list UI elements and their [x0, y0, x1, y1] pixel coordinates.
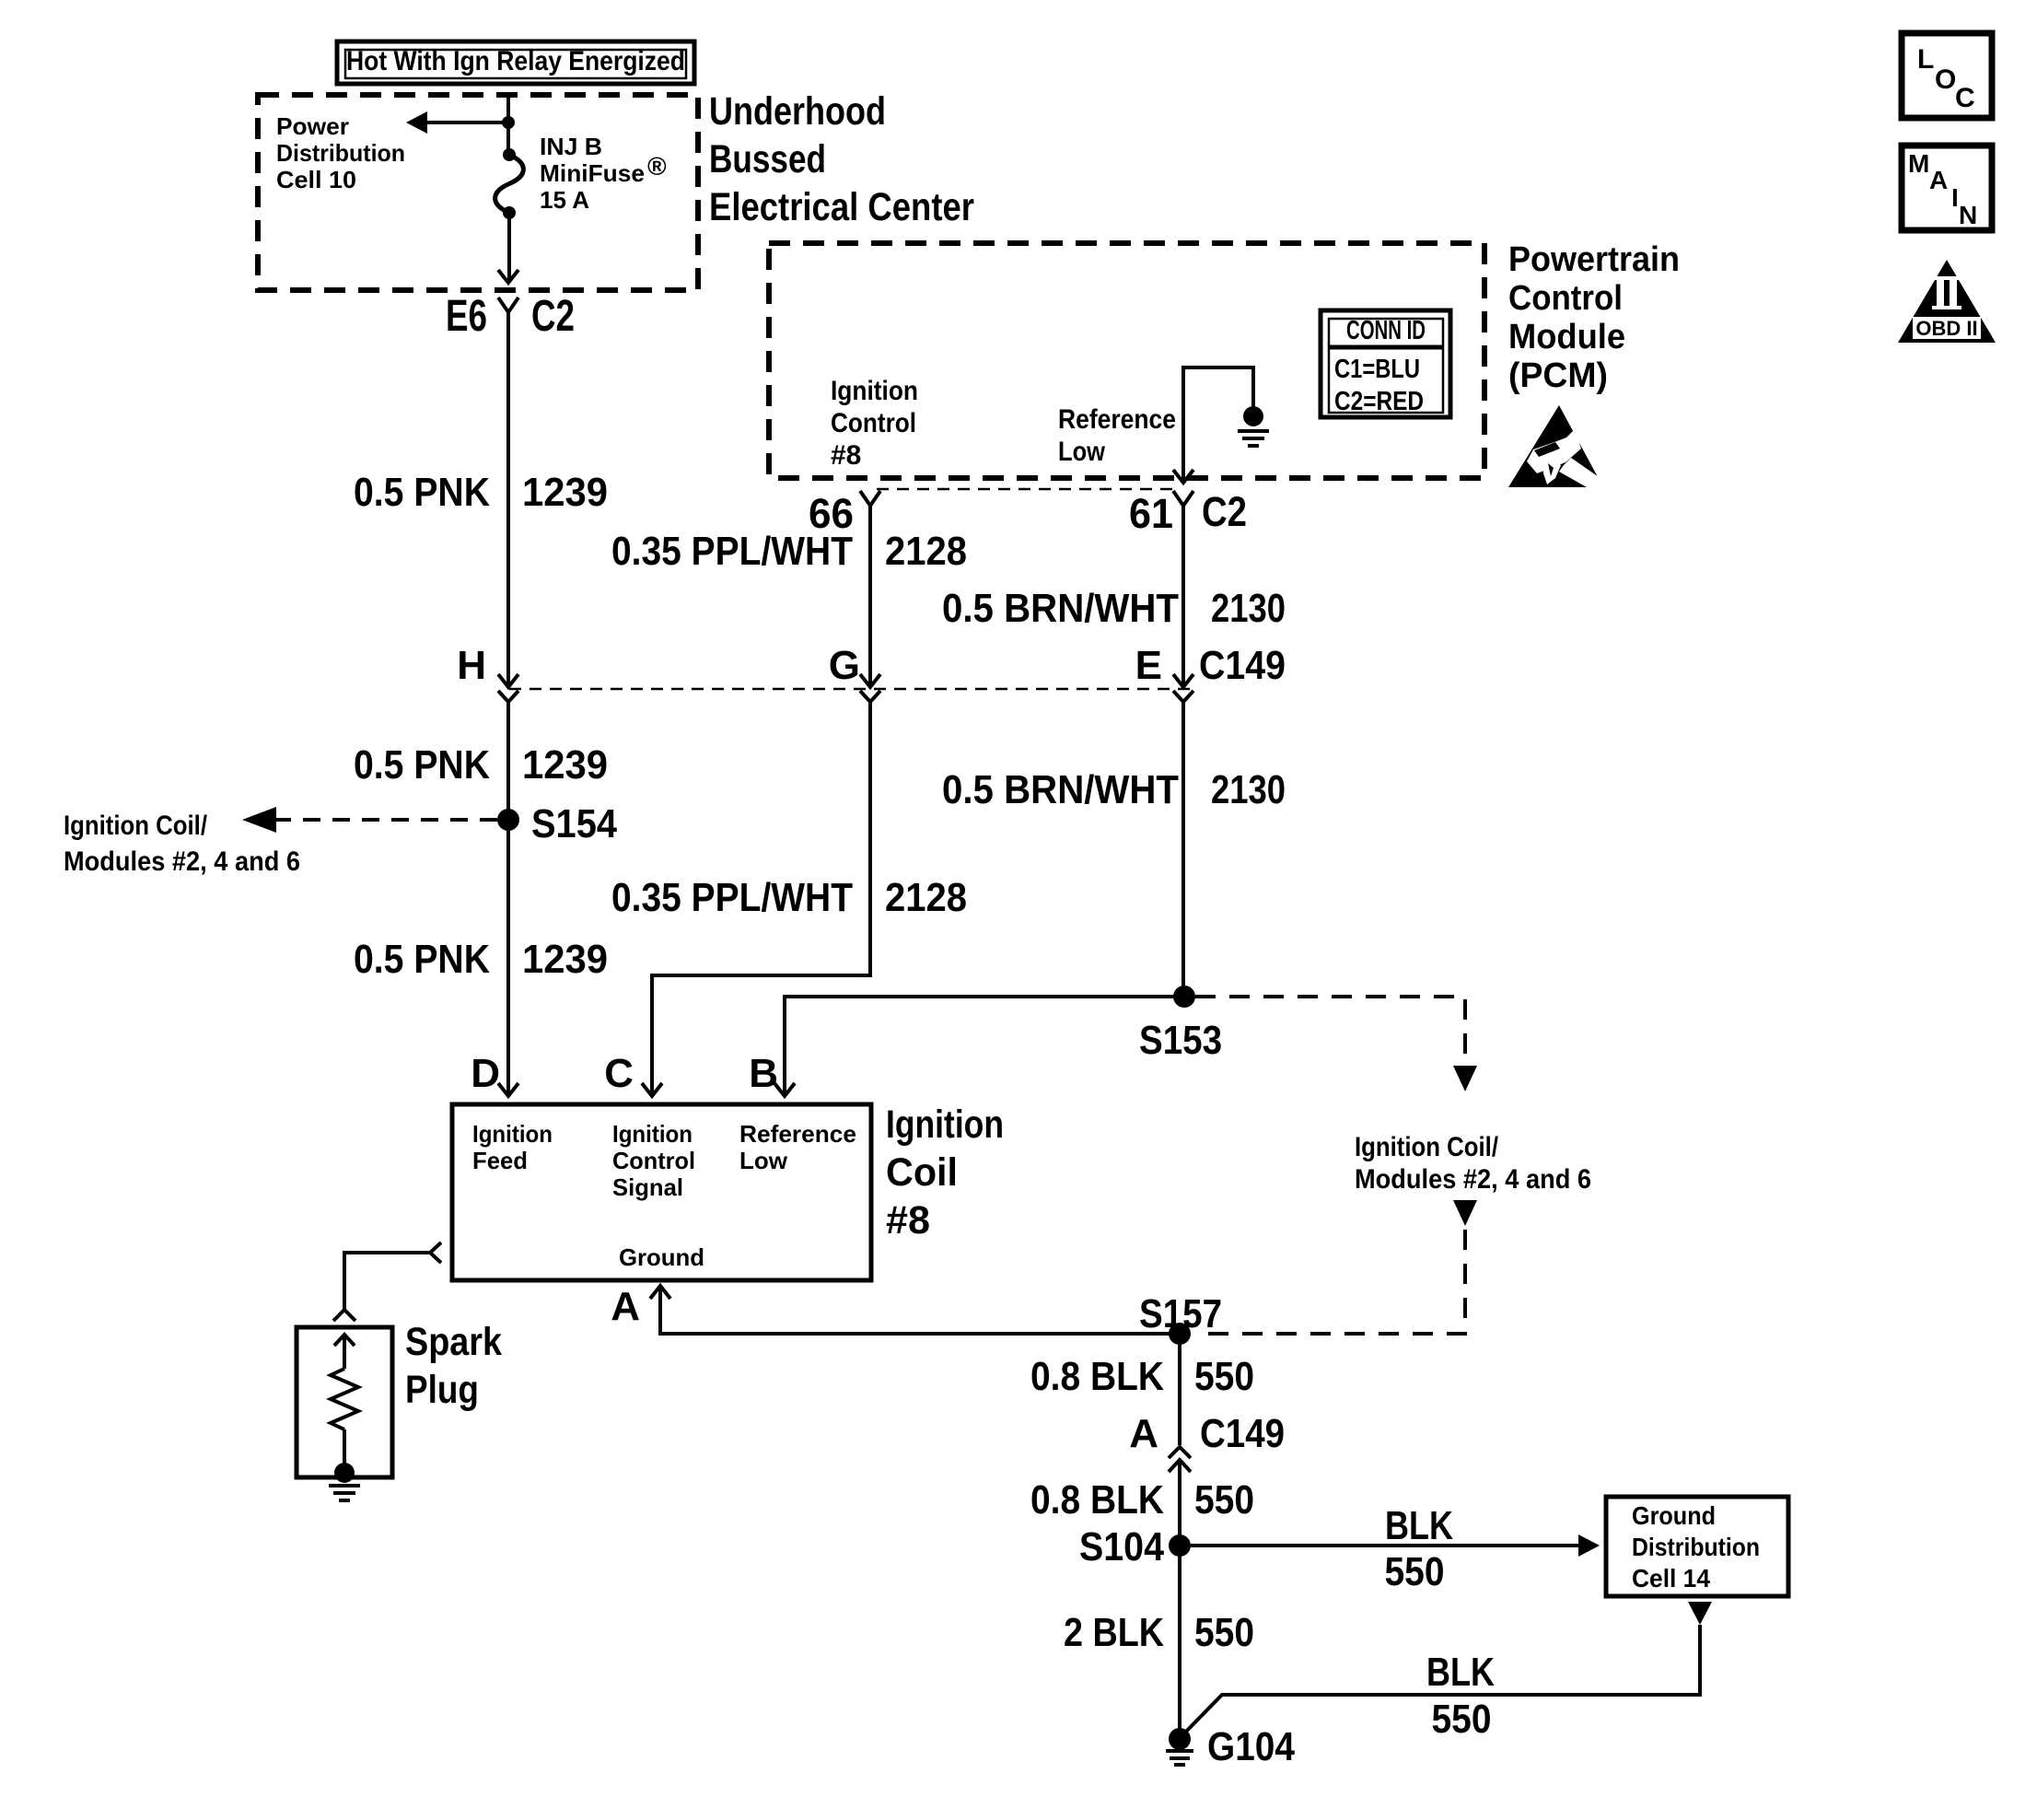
label 0.35 PPL/WHT 2128 (2): [611, 875, 967, 920]
wire W1 fuse to connector E6: [507, 213, 511, 283]
label 0.5 PNK 1239 (3): [354, 937, 608, 982]
svg-text:®: ®: [647, 152, 667, 181]
label 0.8 BLK 550 (1): [1030, 1354, 1254, 1399]
svg-text:S153: S153: [1139, 1018, 1222, 1063]
svg-text:550: 550: [1432, 1697, 1492, 1742]
svg-text:Ignition Coil/: Ignition Coil/: [1355, 1132, 1499, 1162]
A arrowhead up into coil: [650, 1286, 670, 1299]
svg-text:Electrical Center: Electrical Center: [709, 185, 974, 229]
svg-text:C2: C2: [1202, 488, 1247, 535]
svg-text:0.5 PNK: 0.5 PNK: [354, 937, 490, 982]
E arrowhead: [1173, 674, 1193, 687]
dashed wire S153 to modules: [1195, 997, 1477, 1091]
svg-text:#8: #8: [886, 1198, 930, 1242]
svg-text:Distribution: Distribution: [1632, 1533, 1760, 1561]
svg-text:Ground: Ground: [1632, 1501, 1716, 1530]
svg-text:0.5 BRN/WHT: 0.5 BRN/WHT: [942, 586, 1179, 631]
svg-text:N: N: [1959, 201, 1977, 229]
svg-text:S104: S104: [1079, 1524, 1164, 1569]
PCM label: [1508, 240, 1680, 395]
svg-text:C: C: [604, 1051, 634, 1096]
label Spark Plug: [405, 1320, 502, 1412]
svg-text:S154: S154: [531, 801, 617, 846]
svg-text:Distribution: Distribution: [276, 139, 405, 167]
svg-text:G: G: [829, 643, 860, 688]
svg-text:2 BLK: 2 BLK: [1064, 1610, 1164, 1655]
thin dashed connector line under PCM: [877, 488, 1179, 491]
CONN ID box: [1321, 310, 1450, 417]
svg-text:Spark: Spark: [405, 1320, 502, 1364]
svg-text:CONN ID: CONN ID: [1346, 316, 1426, 345]
svg-text:Modules #2, 4 and 6: Modules #2, 4 and 6: [64, 846, 300, 877]
MAIN icon: [1902, 146, 1992, 230]
fuse INJ B MiniFuse 15A: [495, 148, 524, 219]
svg-text:1239: 1239: [522, 742, 608, 787]
connector A C149 arrowhead up: [1169, 1460, 1191, 1472]
wire to S104 and G104: [1178, 1460, 1181, 1739]
label Ignition Coil Modules right: [1355, 1132, 1591, 1195]
svg-text:550: 550: [1194, 1610, 1254, 1655]
G chevron: [860, 691, 880, 702]
spark plug inline chevron: [333, 1310, 355, 1321]
G arrowhead: [860, 674, 880, 687]
svg-text:61: 61: [1129, 490, 1173, 537]
ESD symbol triangle: [1508, 405, 1604, 487]
wire Ground Distribution to G104: [1182, 1625, 1700, 1735]
svg-text:C: C: [1955, 83, 1975, 113]
svg-text:E: E: [1135, 643, 1162, 688]
splice S153: [1173, 986, 1195, 1008]
svg-text:0.5 BRN/WHT: 0.5 BRN/WHT: [942, 767, 1179, 812]
OBD II icon: [1898, 260, 1996, 343]
E chevron: [1173, 691, 1193, 702]
Ignition Coil #8 box: [452, 1104, 871, 1280]
splice S154: [497, 809, 519, 831]
svg-text:Coil: Coil: [886, 1150, 958, 1195]
svg-text:0.8 BLK: 0.8 BLK: [1030, 1477, 1164, 1522]
junction node: [502, 116, 515, 129]
coil pin label Ignition Feed: [472, 1120, 553, 1174]
label BLK 550 lower: [1426, 1650, 1495, 1742]
svg-text:Low: Low: [739, 1147, 788, 1174]
svg-text:OBD II: OBD II: [1915, 317, 1977, 340]
label 0.8 BLK 550 (2): [1030, 1477, 1254, 1522]
svg-text:E6: E6: [446, 292, 487, 341]
svg-text:Control: Control: [1508, 279, 1623, 318]
svg-text:O: O: [1935, 64, 1956, 95]
arrowhead down at UBEC exit: [498, 270, 518, 283]
label 0.5 PNK 1239 (2): [354, 742, 608, 787]
svg-text:Ignition: Ignition: [886, 1102, 1004, 1147]
coil pin label Ignition Control Signal: [612, 1120, 695, 1201]
spark plug ground: [329, 1463, 360, 1500]
svg-text:Cell 10: Cell 10: [276, 166, 356, 193]
svg-text:C1=BLU: C1=BLU: [1334, 355, 1420, 384]
svg-text:2128: 2128: [885, 875, 967, 920]
wire W1 E6 to H: [506, 312, 510, 686]
svg-text:Ignition: Ignition: [472, 1120, 553, 1148]
PCM dashed box: [769, 243, 1484, 478]
arrowhead left: [406, 111, 427, 134]
H arrowhead: [498, 674, 518, 687]
svg-text:550: 550: [1194, 1477, 1254, 1522]
label Ignition Coil Modules left: [64, 811, 300, 877]
connector A C149 chevron: [1169, 1447, 1191, 1458]
UBEC label Underhood Bussed Electrical Center: [709, 89, 974, 229]
svg-text:Power: Power: [276, 112, 349, 140]
svg-text:(PCM): (PCM): [1508, 356, 1608, 395]
splice S104: [1169, 1534, 1191, 1557]
svg-text:Ignition: Ignition: [612, 1120, 693, 1148]
arrowhead right: [1578, 1534, 1600, 1557]
svg-text:H: H: [457, 643, 486, 688]
svg-text:M: M: [1908, 149, 1929, 178]
svg-text:Feed: Feed: [472, 1147, 528, 1174]
svg-text:S157: S157: [1139, 1291, 1222, 1336]
svg-text:BLK: BLK: [1426, 1650, 1495, 1695]
connector E6/C2 Y symbol: [498, 297, 518, 312]
PCM pin label Ignition Control #8: [831, 376, 918, 471]
svg-text:MiniFuse: MiniFuse: [540, 159, 645, 187]
svg-text:Ignition: Ignition: [831, 376, 918, 406]
svg-text:Modules #2, 4 and 6: Modules #2, 4 and 6: [1355, 1164, 1591, 1195]
svg-text:Powertrain: Powertrain: [1508, 240, 1680, 279]
svg-text:A: A: [1929, 166, 1948, 194]
arrowhead down below Ground Distribution: [1688, 1602, 1712, 1625]
wire W1 H to S154: [506, 702, 510, 1095]
label 0.5 BRN/WHT 2130 (2): [942, 767, 1286, 812]
svg-text:Low: Low: [1058, 437, 1106, 467]
svg-text:0.35 PPL/WHT: 0.35 PPL/WHT: [611, 529, 853, 574]
svg-text:Control: Control: [612, 1147, 695, 1174]
label 0.5 BRN/WHT 2130 (1): [942, 586, 1286, 631]
inline connector C149 dashed line: [509, 688, 1191, 691]
svg-text:G104: G104: [1207, 1724, 1295, 1769]
spark plug internal arrow: [334, 1335, 355, 1346]
svg-text:0.5 PNK: 0.5 PNK: [354, 742, 490, 787]
svg-text:Control: Control: [831, 408, 916, 438]
svg-text:Ignition Coil/: Ignition Coil/: [64, 811, 208, 841]
svg-text:0.5 PNK: 0.5 PNK: [354, 470, 490, 515]
splice S157: [1169, 1323, 1191, 1345]
Power Distribution Cell 10 label: [276, 112, 405, 193]
61 Y connector: [1173, 491, 1193, 506]
svg-text:0.35 PPL/WHT: 0.35 PPL/WHT: [611, 875, 853, 920]
fuse label: [540, 133, 667, 214]
wire S104 to Ground Distribution: [1191, 1544, 1580, 1547]
wire W3 61 to E: [1181, 506, 1185, 686]
svg-text:C149: C149: [1199, 643, 1286, 688]
arrowhead left dashed: [242, 807, 276, 833]
wire coil to spark plug: [344, 1253, 429, 1309]
wire S157 down: [1178, 1334, 1181, 1445]
Ground Distribution box: [1606, 1497, 1788, 1596]
H chevron: [498, 691, 518, 702]
dashed wire from S154 to left: [276, 818, 497, 822]
wire W3 E to S153: [1181, 702, 1185, 997]
wire W2 G down and jog left to C: [652, 702, 870, 1096]
svg-text:15 A: 15 A: [540, 186, 589, 214]
svg-text:2128: 2128: [885, 529, 967, 574]
svg-text:Signal: Signal: [612, 1173, 683, 1201]
svg-text:B: B: [749, 1051, 778, 1096]
svg-text:Bussed: Bussed: [709, 137, 826, 181]
ground G104: [1166, 1728, 1193, 1765]
label 0.5 PNK 1239 (1): [354, 470, 608, 515]
spark plug wire from coil left: [430, 1242, 441, 1263]
svg-text:C2: C2: [531, 292, 575, 341]
svg-text:Underhood: Underhood: [709, 89, 886, 134]
svg-text:1239: 1239: [522, 937, 608, 982]
svg-text:2130: 2130: [1211, 586, 1286, 631]
svg-text:BLK: BLK: [1385, 1503, 1453, 1548]
svg-text:0.8 BLK: 0.8 BLK: [1030, 1354, 1164, 1399]
spark plug resistor: [331, 1369, 358, 1429]
svg-text:Plug: Plug: [405, 1368, 479, 1412]
svg-text:1239: 1239: [522, 470, 608, 515]
wire W2 66 to G: [868, 506, 872, 686]
PCM output 66 Y connector: [860, 491, 880, 506]
svg-text:Reference: Reference: [1058, 404, 1176, 435]
dashed wire modules to S157: [1206, 1200, 1477, 1334]
label 2 BLK 550: [1064, 1610, 1254, 1655]
svg-text:Module: Module: [1508, 318, 1625, 356]
svg-text:Reference: Reference: [739, 1120, 856, 1148]
wire arrow to Power Distribution: [422, 121, 508, 124]
svg-text:A: A: [611, 1284, 640, 1329]
svg-text:Cell 14: Cell 14: [1632, 1564, 1710, 1592]
svg-text:I: I: [1951, 183, 1959, 212]
title box Hot With Ign Relay Energized: [337, 41, 694, 84]
UBEC dashed box: [258, 95, 698, 290]
svg-text:C149: C149: [1200, 1411, 1285, 1456]
wire W1 top segment: [506, 96, 510, 155]
svg-text:#8: #8: [831, 440, 861, 471]
svg-text:D: D: [471, 1051, 500, 1096]
svg-text:L: L: [1917, 44, 1934, 75]
PCM pin label Reference Low: [1058, 404, 1176, 467]
svg-text:C2=RED: C2=RED: [1334, 387, 1424, 416]
label 0.35 PPL/WHT 2128 (1): [611, 529, 967, 574]
svg-text:2130: 2130: [1211, 767, 1286, 812]
ground wire A from S157 to coil: [660, 1287, 1180, 1334]
svg-text:Ground: Ground: [619, 1243, 704, 1271]
svg-text:550: 550: [1385, 1549, 1445, 1594]
wire B from S153 to coil: [785, 997, 1184, 1096]
label BLK 550 upper: [1385, 1503, 1454, 1594]
Spark Plug box: [297, 1327, 392, 1477]
B arrowhead into coil box: [774, 1083, 795, 1096]
coil pin label Reference Low: [739, 1120, 856, 1174]
C arrowhead into coil box: [642, 1083, 662, 1096]
label Ignition Coil #8: [886, 1102, 1004, 1242]
PCM internal ground wire: [1173, 367, 1269, 483]
svg-text:550: 550: [1194, 1354, 1254, 1399]
svg-text:INJ B: INJ B: [540, 133, 602, 160]
LOC icon: [1902, 33, 1992, 118]
svg-text:Hot With Ign Relay Energized: Hot With Ign Relay Energized: [346, 46, 685, 76]
svg-text:A: A: [1129, 1411, 1158, 1456]
D arrowhead into coil box: [498, 1083, 518, 1096]
